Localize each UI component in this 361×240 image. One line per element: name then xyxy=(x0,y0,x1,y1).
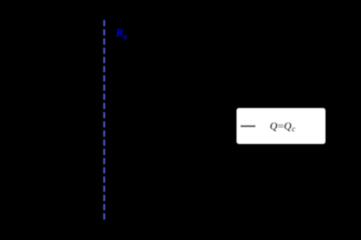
dashed vertical line at B_q xyxy=(103,20,105,220)
legend key line xyxy=(241,125,256,127)
legend box xyxy=(237,108,326,144)
